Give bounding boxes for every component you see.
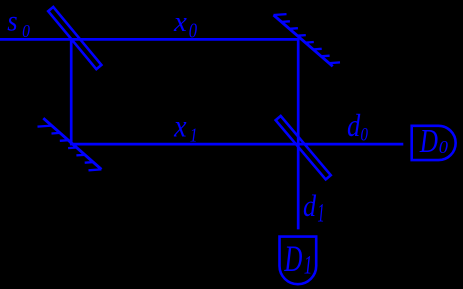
svg-text:d: d <box>347 109 361 144</box>
svg-text:0: 0 <box>439 137 448 157</box>
wire right vertical beam M1 to D1 <box>297 39 300 229</box>
beam x1/d0 horizontal wire <box>70 143 403 146</box>
beam s0/x0 horizontal wire <box>0 38 300 41</box>
beam splitter BS1 <box>48 7 101 69</box>
svg-text:1: 1 <box>190 123 198 146</box>
svg-text:0: 0 <box>189 20 198 43</box>
svg-text:x: x <box>173 6 187 38</box>
detector D1 body <box>280 237 317 285</box>
svg-text:1: 1 <box>304 249 313 279</box>
beam splitter BS2 <box>276 116 331 180</box>
svg-text:d: d <box>303 190 317 223</box>
svg-text:1: 1 <box>317 198 324 228</box>
detector D0 body <box>412 126 456 160</box>
svg-text:s: s <box>7 5 17 37</box>
mirror M2 bottom-left <box>38 118 102 170</box>
svg-text:D: D <box>419 122 438 160</box>
svg-text:D: D <box>284 238 303 279</box>
svg-text:0: 0 <box>22 21 30 41</box>
mirror M1 top-right <box>274 14 341 66</box>
svg-text:x: x <box>173 109 186 144</box>
svg-text:0: 0 <box>361 124 369 145</box>
wire left vertical beam BS1 to M2 <box>70 39 73 144</box>
